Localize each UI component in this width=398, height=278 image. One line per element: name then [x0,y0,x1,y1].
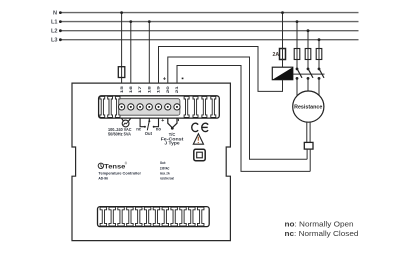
strip divider R2 [193,96,198,117]
svg-text:Out: Out [145,131,153,136]
junction on L2 (phase 2) [307,29,310,32]
wire L1 phase drop [296,22,298,69]
bottom slot 2 [109,207,116,226]
wire thermocouple - return [309,149,311,171]
terminal strip bottom [98,207,210,227]
bottom slot 9 [171,207,178,226]
wire L1 to terminal 18 [148,22,150,84]
terminal 21 screw [174,104,180,110]
node L3 start dot [59,38,62,41]
wire terminal 21 to thermocouple - [177,66,310,172]
wire contact2 to heater [307,78,309,91]
svg-text:19: 19 [157,86,161,93]
junction on L1 (16) [129,20,132,23]
junction on L1 (phase 1) [296,20,299,23]
svg-text:L3: L3 [51,38,58,44]
contact pole 1 [296,68,299,71]
wire terminal 20 to thermocouple + [168,57,307,159]
wire contact3 to heater [318,78,320,96]
bottom slot 10 [180,207,187,226]
junction on L1 (18) [148,20,151,23]
svg-text:Tense: Tense [104,163,126,170]
node L2 start dot [59,29,62,32]
svg-text:N: N [53,11,57,17]
fuse F4 phase 2 [305,49,311,60]
wire L2 phase drop [307,31,309,69]
terminal 16 screw [128,104,134,110]
terminal 15 screw [119,104,125,110]
fuse F1 supply [118,67,125,78]
svg-text:21: 21 [175,86,179,93]
tense logo [98,161,128,170]
svg-text:no: no [156,127,162,132]
wire thermocouple + return [306,149,308,159]
junction on L3 (phase 3) [318,38,321,41]
wire L3 bus [59,39,359,41]
bottom slot 11 [189,207,196,226]
relay output symbol [140,118,158,130]
node L1 start dot [59,20,62,23]
controller body AD-96 [72,83,230,241]
thermocouple stem double wire [306,122,308,142]
contactor linkage line [293,73,325,75]
svg-text:nc: nc [136,127,142,132]
svg-text:15: 15 [120,86,124,93]
wire terminal 19 to contactor coil [159,47,283,92]
svg-text:L1: L1 [51,20,58,26]
terminal strip top [99,96,220,118]
bottom slot 4 [127,207,134,226]
bottom slot 3 [118,207,125,226]
wire L3 phase drop [318,40,320,69]
bottom slot 12 [197,207,204,226]
terminal 20 screw [165,104,171,110]
thermocouple input symbol [161,118,179,129]
strip divider L1 [100,96,105,117]
terminal 18 screw [146,104,152,110]
svg-text:Resistance: Resistance [294,105,322,111]
contact pole 3 [318,68,321,71]
wire N to fuse 2A [282,13,284,68]
svg-text:J Type: J Type [164,141,180,146]
bottom slot 8 [162,207,169,226]
svg-text:L2: L2 [51,29,58,35]
wire L2 bus [59,30,359,32]
bottom slot 5 [136,207,143,226]
thermocouple head box [304,142,313,149]
strip divider L3 [115,96,120,117]
fuse F3 phase 1 [294,49,300,60]
CE mark [192,123,208,131]
svg-text:AD-96: AD-96 [98,175,108,180]
strip divider R3 [202,96,207,117]
bottom slot 1 [100,207,107,226]
terminal 17 screw [137,104,143,110]
double insulation symbol [194,149,205,160]
contactor K1 coil (static relay box) [272,67,293,80]
fuse F5 phase 3 [316,49,322,60]
AC supply symbol [122,118,131,127]
svg-text:50/60Hz 5VA: 50/60Hz 5VA [108,131,132,136]
svg-text:resistive load: resistive load [160,175,174,180]
fuse F2 2A [280,49,286,60]
contact pole 2 [307,68,310,71]
heater Resistance [293,91,324,122]
terminal block gray [119,99,180,116]
svg-text:17: 17 [138,86,142,93]
bottom slot 6 [144,207,151,226]
wire N to terminal 15 [121,13,123,84]
strip divider L2 [108,96,113,117]
junction on N [120,11,123,14]
bottom slot 7 [153,207,160,226]
wire contact1 to heater [296,78,298,96]
svg-text:16: 16 [129,86,133,93]
svg-text:no: Normally Open: no: Normally Open [285,219,354,228]
wire L1 bus [59,21,359,23]
wire N bus [59,12,359,14]
polarity - label above terminal 21 [182,78,184,80]
strip divider R1 [184,96,189,117]
terminal 19 screw [155,104,161,110]
wire L1 to terminal 16 [130,22,132,84]
svg-text:18: 18 [147,86,151,93]
svg-text:nc: Normally Closed: nc: Normally Closed [285,229,359,238]
junction on N (2A) [281,11,284,14]
strip divider R4 [211,96,216,117]
node N start dot [59,11,62,14]
warning triangle [193,134,203,145]
svg-text:2A: 2A [273,52,280,58]
svg-text:20: 20 [166,86,170,93]
svg-text:+: + [161,118,164,124]
